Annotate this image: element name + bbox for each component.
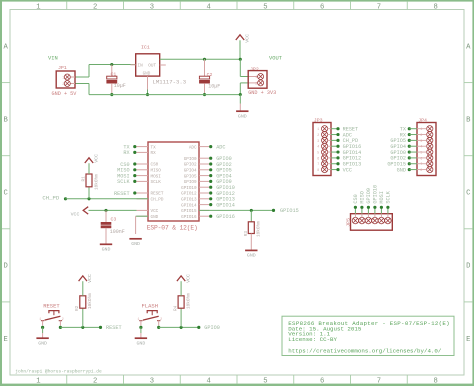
svg-text:RESET: RESET — [151, 192, 164, 197]
net label CH_PD at JP3 pin 3 — [331, 138, 358, 144]
junction C3 top — [104, 209, 107, 212]
wire VCC to module VCC pin — [89, 209, 137, 211]
svg-text:GND: GND — [151, 215, 159, 220]
module pin GPIO12 (right) — [181, 192, 209, 197]
svg-text:GND: GND — [131, 241, 140, 247]
net label GPIO4 — [209, 173, 232, 179]
wire module GND pin to ground — [136, 216, 148, 234]
net label VCC at JP3 pin 8 — [331, 167, 352, 173]
svg-text:VCC: VCC — [185, 274, 191, 283]
svg-text:VCC: VCC — [93, 154, 99, 163]
svg-text:GND: GND — [143, 71, 151, 76]
svg-text:john/raspi @horus-raspberrypi.: john/raspi @horus-raspberrypi.de — [15, 368, 102, 374]
svg-text:VCC: VCC — [71, 212, 80, 218]
module pin SCLK (left) — [137, 180, 162, 185]
ground below FLASH button — [135, 326, 147, 347]
svg-text:R2: R2 — [75, 305, 80, 311]
resistor R1 10kOhm pullup CH_PD — [81, 163, 99, 199]
net label CS0 at JP5 pin 1 — [353, 194, 359, 213]
svg-text:4: 4 — [317, 145, 319, 149]
svg-text:C: C — [466, 190, 471, 198]
svg-text:C2: C2 — [207, 72, 213, 78]
svg-text:8: 8 — [433, 3, 437, 11]
net label GPIO5 at JP4 pin 3 — [390, 138, 417, 144]
net label GND at JP4 pin 8 — [397, 167, 417, 173]
svg-text:6: 6 — [320, 377, 324, 385]
svg-text:JP2: JP2 — [250, 66, 259, 72]
net label SCLK — [117, 179, 136, 185]
module pin RX (left) — [137, 151, 157, 156]
svg-text:1: 1 — [317, 127, 319, 131]
module pin GPIO14 (right) — [181, 203, 209, 208]
net label MISO — [117, 168, 136, 174]
svg-text:RESET: RESET — [43, 302, 60, 309]
svg-text:MISO: MISO — [151, 169, 162, 174]
supply VCC arrow above R2 — [79, 274, 94, 283]
pushbutton RESET — [39, 302, 64, 325]
svg-text:C: C — [4, 190, 9, 198]
svg-text:VIN: VIN — [48, 56, 58, 62]
svg-text:8: 8 — [317, 168, 319, 172]
pushbutton FLASH — [138, 302, 163, 325]
resistor R4 10kOhm — [173, 281, 191, 327]
svg-text:2: 2 — [317, 133, 319, 137]
svg-text:2: 2 — [93, 377, 97, 385]
resistor R2 10kOhm — [75, 281, 93, 327]
module pin RESET (left) — [137, 192, 164, 197]
capacitor C2 10uF — [199, 59, 220, 94]
svg-text:2: 2 — [255, 83, 257, 87]
junction C2 bottom — [203, 93, 206, 96]
svg-text:RESET: RESET — [114, 191, 130, 197]
title block — [282, 316, 454, 355]
net label CS0 — [120, 162, 136, 168]
junction R3 / GPIO15 — [250, 209, 253, 212]
net label GPIO0 — [209, 156, 232, 162]
svg-text:CH_PD: CH_PD — [151, 198, 164, 203]
svg-text:5: 5 — [420, 150, 422, 154]
svg-text:1: 1 — [138, 317, 140, 321]
net label GPIO4 at JP4 pin 4 — [390, 144, 417, 150]
svg-text:2: 2 — [420, 133, 422, 137]
svg-text:E: E — [4, 336, 8, 344]
wire JP2 pin2 to GND — [240, 83, 249, 95]
svg-text:4: 4 — [420, 145, 422, 149]
svg-text:GPIO9: GPIO9 — [184, 180, 197, 185]
net label GPIO13 — [209, 197, 235, 203]
svg-text:GPIO4: GPIO4 — [184, 169, 197, 174]
svg-text:5: 5 — [263, 377, 267, 385]
svg-text:7: 7 — [317, 162, 319, 166]
pin header JP4 — [417, 118, 436, 176]
svg-text:10kOhm: 10kOhm — [186, 293, 191, 309]
module pin GPIO2 (right) — [184, 163, 210, 168]
svg-text:1: 1 — [62, 77, 64, 81]
svg-text:10kOhm: 10kOhm — [88, 293, 93, 309]
junction IC1 GND — [146, 93, 149, 96]
svg-text:GPIO12: GPIO12 — [181, 192, 197, 197]
net label MISO at JP5 pin 2 — [360, 191, 366, 214]
svg-text:GPIO0: GPIO0 — [184, 157, 197, 162]
module pin GPIO13 (right) — [181, 198, 209, 203]
module pin TX (left) — [137, 145, 157, 150]
svg-text:MOSI: MOSI — [151, 174, 162, 179]
svg-text:10kOhm: 10kOhm — [257, 221, 262, 237]
supply VCC arrow above R1 — [85, 154, 100, 163]
svg-text:3: 3 — [150, 3, 154, 11]
svg-text:GPIO15: GPIO15 — [280, 208, 299, 214]
svg-text:ADC: ADC — [189, 145, 197, 150]
module pin VCC (left) — [137, 209, 159, 214]
svg-text:5: 5 — [317, 150, 319, 154]
net label GPIO9 at JP5 pin 3 — [366, 188, 372, 214]
svg-text:3: 3 — [317, 139, 319, 143]
svg-text:6: 6 — [320, 3, 324, 11]
svg-text:5: 5 — [263, 3, 267, 11]
svg-text:1: 1 — [39, 317, 41, 321]
net label RESET — [114, 191, 136, 197]
svg-text:VCC: VCC — [245, 34, 251, 43]
module pin GPIO16 (right) — [181, 215, 209, 220]
module pin MOSI (left) — [137, 174, 162, 179]
wire GPIO15 net — [199, 208, 299, 214]
wire GND rail — [89, 94, 240, 96]
svg-text:4: 4 — [206, 3, 210, 11]
svg-text:TX: TX — [151, 145, 157, 150]
svg-text:GPIO15: GPIO15 — [181, 209, 197, 214]
module pin GND (left) — [137, 215, 159, 220]
svg-text:RESET: RESET — [106, 325, 122, 331]
junction C1 bottom — [110, 93, 113, 96]
svg-text:CS0: CS0 — [353, 194, 359, 203]
svg-text:SCLK: SCLK — [117, 179, 130, 185]
net label GPIO12 at JP3 pin 6 — [331, 156, 361, 162]
junction C2 top — [203, 58, 206, 61]
module pin GPIO15 (right) — [181, 209, 209, 214]
svg-text:https://creativecommons.org/li: https://creativecommons.org/licenses/by/… — [288, 347, 442, 354]
wire JP1 pin2 to GND rail — [74, 84, 89, 95]
svg-text:VCC: VCC — [343, 167, 352, 173]
supply VCC arrow on 3V3 rail — [236, 34, 251, 59]
net label ADC at JP3 pin 2 — [331, 132, 352, 138]
svg-text:R1: R1 — [81, 176, 86, 182]
svg-text:3: 3 — [420, 139, 422, 143]
net label GPIO15 at JP4 pin 7 — [387, 162, 417, 168]
svg-text:License: CC-BY: License: CC-BY — [288, 336, 337, 343]
svg-text:GPIO10: GPIO10 — [373, 185, 379, 204]
net label TX — [123, 144, 136, 150]
svg-text:GPIO0: GPIO0 — [204, 325, 220, 331]
net label GPIO16 at JP3 pin 4 — [331, 144, 361, 150]
svg-text:VCC: VCC — [87, 274, 93, 283]
junction VCC rail / JP2 — [239, 58, 242, 61]
supply VCC arrow above R4 — [177, 274, 192, 283]
net label ADC — [209, 144, 225, 150]
svg-text:SCLK: SCLK — [386, 190, 392, 203]
footer note — [15, 368, 102, 374]
svg-text:10kOhm: 10kOhm — [94, 174, 99, 190]
junction R4 bottom — [180, 326, 183, 329]
net label GPIO16 — [209, 214, 235, 220]
svg-text:B: B — [4, 116, 9, 124]
net label GPIO5 — [209, 168, 232, 174]
net label RX at JP4 pin 2 — [400, 132, 417, 138]
svg-text:RX: RX — [123, 150, 130, 156]
resistor R3 10kOhm pulldown GPIO15 — [244, 210, 262, 249]
net label GPIO2 at JP4 pin 6 — [390, 156, 417, 162]
svg-text:GPIO10: GPIO10 — [181, 186, 197, 191]
svg-text:ESP-07 & 12(E): ESP-07 & 12(E) — [147, 225, 198, 232]
net label GPIO10 — [209, 185, 235, 191]
svg-text:100nF: 100nF — [110, 229, 125, 235]
svg-text:GND: GND — [136, 341, 145, 347]
capacitor C3 100nF — [101, 210, 125, 243]
module pin CH_PD (left) — [137, 198, 164, 203]
net label TX at JP4 pin 1 — [400, 127, 417, 133]
svg-text:A: A — [466, 43, 471, 51]
module pin GPIO4 (right) — [184, 169, 210, 174]
svg-text:GPIO5: GPIO5 — [184, 174, 197, 179]
module pin GPIO0 (right) — [184, 157, 210, 162]
junction GND rail end — [239, 93, 242, 96]
svg-text:1: 1 — [255, 76, 257, 80]
net label MOSI at JP5 pin 5 — [379, 191, 385, 214]
svg-text:D: D — [466, 263, 470, 271]
module pin MISO (left) — [137, 169, 162, 174]
svg-text:7: 7 — [377, 377, 381, 385]
net label VIN — [48, 56, 58, 62]
net label SCLK at JP5 pin 6 — [386, 190, 392, 213]
svg-text:CS0: CS0 — [151, 163, 159, 168]
ground below module GND — [129, 239, 141, 247]
junction R2 bottom — [81, 326, 84, 329]
wire 3V3 rail from IC1 OUT — [160, 58, 241, 60]
svg-text:1: 1 — [420, 127, 422, 131]
junction R1 / CH_PD — [87, 197, 90, 200]
svg-text:SCLK: SCLK — [151, 180, 162, 185]
svg-text:1: 1 — [36, 377, 40, 385]
svg-text:2: 2 — [62, 317, 64, 321]
ground below JP2 — [236, 95, 248, 120]
module pin CS0 (left) — [137, 163, 159, 168]
svg-text:D: D — [4, 263, 8, 271]
wire IC1 GND pin to GND rail — [147, 90, 149, 95]
svg-text:3: 3 — [150, 377, 154, 385]
svg-text:GPIO9: GPIO9 — [366, 188, 372, 204]
svg-text:VOUT: VOUT — [269, 56, 283, 62]
svg-text:GND + 5V: GND + 5V — [52, 91, 78, 97]
svg-text:1: 1 — [36, 3, 40, 11]
svg-text:GPIO14: GPIO14 — [216, 202, 235, 208]
net label GPIO14 — [209, 202, 235, 208]
svg-text:GPIO13: GPIO13 — [181, 198, 197, 203]
svg-text:ADC: ADC — [216, 144, 225, 150]
wire RESET button to RESET — [59, 325, 122, 331]
svg-text:IN: IN — [138, 64, 144, 69]
svg-text:GPIO2: GPIO2 — [184, 163, 197, 168]
svg-text:8: 8 — [420, 168, 422, 172]
svg-text:8: 8 — [433, 377, 437, 385]
module pin GPIO9 (right) — [184, 180, 210, 185]
supply VCC arrow left (module VCC) — [71, 207, 89, 218]
module pin GPIO5 (right) — [184, 174, 210, 179]
svg-text:R3: R3 — [244, 231, 249, 237]
svg-text:B: B — [466, 116, 471, 124]
wire VIN rail from JP1 to IC1 IN — [74, 65, 136, 78]
svg-text:A: A — [4, 43, 9, 51]
svg-text:10µF: 10µF — [208, 83, 220, 89]
svg-text:10µF: 10µF — [114, 83, 126, 89]
ground below C3 — [100, 244, 112, 252]
ground below RESET button — [36, 326, 48, 347]
svg-text:7: 7 — [420, 162, 422, 166]
net label GPIO9 — [209, 179, 232, 185]
net label VOUT — [269, 56, 283, 62]
wire FLASH button to GPIO0 — [157, 325, 220, 331]
net label GPIO12 — [209, 191, 235, 197]
svg-text:E: E — [466, 336, 470, 344]
pin header JP3 — [313, 118, 331, 176]
svg-text:C1: C1 — [111, 71, 117, 77]
svg-text:4: 4 — [206, 377, 210, 385]
svg-text:MISO: MISO — [360, 191, 366, 203]
wire 3V3 to JP2 pin1 — [240, 59, 249, 76]
net label MOSI — [117, 173, 136, 179]
svg-text:LM1117-3.3: LM1117-3.3 — [153, 79, 187, 86]
svg-text:2: 2 — [160, 317, 162, 321]
svg-text:GPIO16: GPIO16 — [216, 214, 235, 220]
module pin ADC (right) — [189, 145, 209, 150]
net label GPIO14 at JP3 pin 5 — [331, 150, 361, 156]
connector JP2 — [248, 66, 276, 96]
net label GPIO2 — [209, 162, 232, 168]
svg-text:RX: RX — [151, 151, 157, 156]
svg-text:6: 6 — [420, 156, 422, 160]
svg-text:7: 7 — [377, 3, 381, 11]
junction C1 top — [110, 63, 113, 66]
svg-text:6: 6 — [317, 156, 319, 160]
connector JP1 — [52, 65, 78, 97]
svg-text:JP1: JP1 — [58, 65, 67, 71]
module pin GPIO10 (right) — [181, 186, 209, 191]
svg-text:CH_PD: CH_PD — [42, 195, 59, 202]
svg-text:2: 2 — [62, 83, 64, 87]
svg-text:2: 2 — [93, 3, 97, 11]
net label RX — [123, 150, 136, 156]
net label GPIO13 at JP3 pin 7 — [331, 162, 361, 168]
svg-text:GND: GND — [38, 341, 47, 347]
svg-text:R4: R4 — [173, 305, 178, 311]
svg-text:GND: GND — [238, 113, 247, 119]
svg-text:GND + 3V3: GND + 3V3 — [248, 90, 276, 96]
ground below R3 — [245, 250, 257, 258]
svg-text:GND: GND — [397, 167, 406, 173]
wire CH_PD net — [42, 195, 148, 202]
svg-text:VCC: VCC — [151, 209, 159, 214]
svg-text:GND: GND — [102, 247, 111, 253]
svg-text:MOSI: MOSI — [379, 191, 385, 203]
svg-text:GPIO16: GPIO16 — [181, 215, 197, 220]
net label RESET at JP3 pin 1 — [331, 127, 358, 133]
capacitor C1 10uF — [107, 65, 126, 95]
module ESP-07/12E — [147, 142, 199, 232]
pin header JP5 — [345, 214, 392, 231]
svg-text:OUT: OUT — [148, 64, 156, 69]
svg-text:GND: GND — [247, 253, 256, 259]
net label GPIO0 at JP4 pin 5 — [390, 150, 417, 156]
net label GPIO10 at JP5 pin 4 — [373, 185, 379, 214]
svg-text:IC1: IC1 — [141, 44, 150, 50]
voltage regulator IC1 LM1117-3.3 — [131, 44, 187, 89]
svg-text:GPIO14: GPIO14 — [181, 203, 197, 208]
svg-text:C3: C3 — [111, 216, 117, 222]
svg-text:FLASH: FLASH — [142, 302, 159, 309]
